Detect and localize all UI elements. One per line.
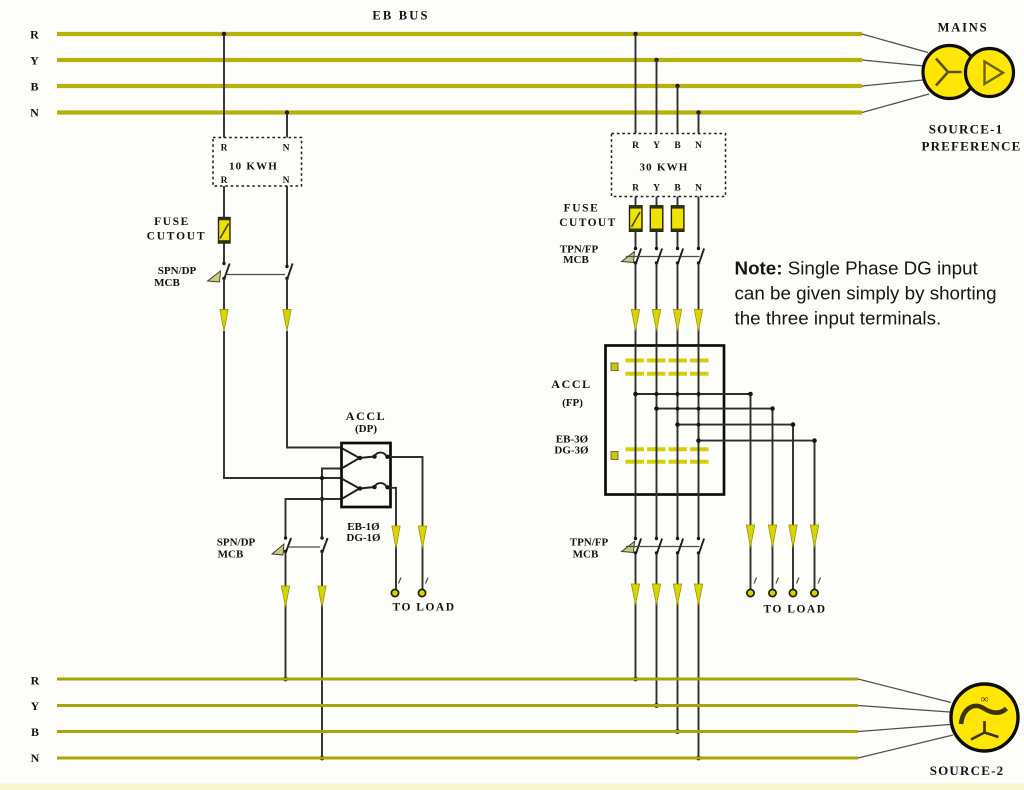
arrow Y input ACCL FP: [652, 310, 660, 332]
svg-text:10 KWH: 10 KWH: [229, 161, 278, 173]
breaker Q2 mechanical link: [288, 546, 321, 548]
indicator square EB: [611, 363, 618, 371]
svg-text:TO LOAD: TO LOAD: [392, 602, 455, 614]
svg-text:R: R: [221, 176, 228, 186]
node junction x322 y499: [320, 497, 324, 501]
breaker Q4 mechanical link: [626, 546, 700, 548]
changeover unit U1 ACCL DP box: [342, 443, 391, 507]
arrow DP load wire left: [392, 526, 400, 549]
source symbol: DG generator SOURCE-2: [951, 684, 1018, 751]
fuse F1 (single phase fuse cutout): [219, 218, 231, 244]
wire fuse F1 to MCB Q1: [223, 243, 225, 264]
arrow N input ACCL FP: [694, 310, 702, 332]
wire MCB Q1 pole R down (EB phase): [223, 279, 225, 311]
node tap R bus x224: [222, 32, 226, 36]
terminal FP load N: [811, 578, 821, 597]
wire DG neutral down to bottom N bus: [321, 552, 323, 759]
node junction DG N bottom bus: [696, 756, 701, 761]
wire R bus top: [57, 32, 862, 36]
svg-text:N: N: [695, 184, 702, 194]
svg-text:FUSE: FUSE: [564, 203, 600, 215]
node tap N bus x287: [285, 110, 289, 114]
wire MCB Q3 N down to ACCL FP: [698, 263, 700, 346]
svg-text:Note: Single Phase DG input: Note: Single Phase DG input: [735, 258, 979, 279]
node tap Y bus x656.5: [654, 58, 658, 62]
breaker Q1 SPN/DP MCB pole N: [285, 264, 292, 281]
source symbol: mains wye circle: [923, 46, 976, 99]
wire drop from R bus to 10KWH meter: [223, 34, 225, 138]
wire EB neutral down and right to ACCL DP input 1: [287, 331, 342, 448]
svg-text:N: N: [695, 141, 702, 151]
node junction DG Y bottom bus: [654, 703, 659, 708]
arrow EB phase wire: [220, 310, 228, 332]
wire fan from N bus to mains: [862, 94, 929, 113]
breaker Q3 TPN/FP MCB pole Y: [655, 247, 662, 265]
svg-text:B: B: [674, 141, 681, 151]
contact bar row 3 (DG side): [626, 447, 710, 451]
wire fuse F4 to MCB Q3: [677, 231, 679, 248]
svg-text:N: N: [283, 144, 290, 154]
wire fan from R bus to mains: [862, 34, 928, 53]
svg-text:B: B: [31, 725, 39, 739]
wire B bus bottom: [57, 730, 858, 733]
kWh meter M2 30 KWH (dashed box): [612, 134, 726, 197]
wire Y bus bottom: [57, 704, 858, 707]
arrow FP load Y: [768, 525, 776, 548]
indicator square DG: [611, 452, 618, 460]
wire fan from R bottom bus to source-2: [858, 679, 951, 703]
svg-text:ACCL: ACCL: [551, 377, 591, 391]
fuse F4 (B phase): [671, 206, 684, 232]
svg-text:TO LOAD: TO LOAD: [763, 604, 826, 616]
svg-text:SPN/DP: SPN/DP: [158, 265, 197, 277]
svg-text:SOURCE-1: SOURCE-1: [929, 122, 1004, 137]
wire DG B down to bottom bus: [677, 553, 679, 732]
breaker Q1 SPN/DP MCB pole R: [208, 262, 230, 282]
breaker Q3 mechanical link: [626, 256, 700, 258]
arrow R input ACCL FP: [631, 310, 639, 332]
arrow FP load N: [810, 525, 818, 548]
svg-text:TPN/FP: TPN/FP: [570, 537, 609, 549]
arrow DG neutral bottom: [318, 586, 326, 607]
node junction DG B bottom bus: [675, 729, 680, 734]
wire B through ACCL FP down to MCB Q4: [677, 346, 679, 539]
svg-text:∞: ∞: [981, 694, 989, 706]
terminal FP load Y: [769, 578, 779, 597]
svg-text:(DP): (DP): [355, 423, 377, 435]
arrow DG Y: [652, 584, 660, 605]
wire MCB Q3 B down to ACCL FP: [677, 263, 679, 346]
node tap R bus x635.5: [633, 32, 637, 36]
svg-text:R: R: [221, 144, 228, 154]
arrow B input ACCL FP: [673, 310, 681, 332]
svg-text:DG-3Ø: DG-3Ø: [554, 445, 589, 457]
terminal DP load 2: [418, 578, 428, 597]
svg-text:30 KWH: 30 KWH: [639, 162, 688, 174]
wire fan from B bus to mains: [862, 80, 923, 86]
wire DG R down to bottom bus: [635, 553, 637, 679]
svg-text:MCB: MCB: [218, 549, 244, 561]
wire MCB Q3 R down to ACCL FP: [635, 263, 637, 346]
switch S2 bottom changeover (phase): [342, 479, 391, 500]
wire N bus top: [57, 110, 862, 114]
svg-text:N: N: [30, 106, 39, 120]
wire B bus top: [57, 84, 862, 88]
svg-text:SOURCE-2: SOURCE-2: [930, 763, 1005, 778]
svg-text:CUTOUT: CUTOUT: [147, 231, 207, 243]
breaker Q3 TPN/FP MCB pole B: [676, 247, 683, 265]
wire N bus bottom: [57, 756, 858, 759]
breaker Q2 SPN/DP MCB pole DG neutral: [320, 536, 327, 553]
breaker Q4 TPN/FP MCB pole N: [697, 537, 704, 555]
wire meter M2 Y to fuse F3: [656, 197, 658, 207]
wire Y through ACCL FP down to MCB Q4: [656, 346, 658, 539]
breaker Q4 TPN/FP MCB pole R: [622, 537, 642, 555]
svg-text:B: B: [30, 80, 38, 94]
svg-text:MCB: MCB: [573, 549, 599, 561]
svg-text:R: R: [632, 184, 639, 194]
svg-text:R: R: [30, 28, 39, 42]
terminal DP load 1: [391, 578, 401, 597]
wire R through ACCL FP down to MCB Q4: [635, 346, 637, 539]
svg-text:R: R: [632, 141, 639, 151]
wire meter M2 N down (no fuse): [698, 197, 700, 249]
note text: [735, 258, 997, 329]
wire drop B to 30KWH meter: [677, 86, 679, 134]
arrow DG phase bottom: [281, 586, 289, 607]
svg-text:CUTOUT: CUTOUT: [559, 217, 616, 229]
wire R bus bottom: [57, 677, 858, 680]
arrow FP load R: [746, 525, 754, 548]
fuse F3 (Y phase): [650, 206, 663, 232]
node tap B bus x677.5: [675, 84, 679, 88]
breaker Q1 mechanical link: [226, 274, 285, 276]
svg-text:R: R: [31, 674, 40, 688]
wire fuse F2 to MCB Q3: [635, 231, 637, 248]
contact bar row 4 (DG side): [626, 460, 710, 464]
svg-text:can be given simply by shortin: can be given simply by shorting: [735, 283, 997, 304]
wire drop R to 30KWH meter: [635, 34, 637, 134]
wire meter M1 N output down to MCB Q1: [286, 186, 288, 267]
contact bar row 2 (EB side): [626, 372, 710, 376]
node junction x322 y478: [320, 476, 324, 480]
svg-text:Y: Y: [31, 699, 40, 713]
svg-text:SPN/DP: SPN/DP: [217, 537, 256, 549]
node junction DG neutral on bottom N bus: [320, 756, 325, 761]
arrow DG N: [694, 584, 702, 605]
wire drop N to 30KWH meter: [698, 113, 700, 134]
wire fan from N bottom bus to source-2: [858, 735, 953, 758]
wire meter M1 R output down to fuse F1: [223, 186, 225, 218]
node tap N bus x698.5: [696, 110, 700, 114]
wire meter M2 R to fuse F2: [635, 197, 637, 207]
wire DG neutral riser x322 to ACCL DP input 2: [322, 469, 342, 539]
arrow DG B: [673, 584, 681, 605]
kWh meter M1 10 KWH (dashed box): [213, 138, 302, 187]
wire drop from N bus to 10KWH meter: [286, 113, 288, 138]
wire DG phase riser x285.5 to ACCL DP input 4: [286, 499, 342, 538]
changeover unit U2 ACCL FP box: [606, 346, 725, 495]
wire MCB Q1 pole N down (EB neutral): [286, 279, 288, 311]
svg-text:MCB: MCB: [154, 277, 180, 289]
svg-text:Y: Y: [653, 184, 660, 194]
wire MCB Q3 Y down to ACCL FP: [656, 263, 658, 346]
wire EB phase down and right to ACCL DP input 3: [224, 331, 342, 478]
node junction DG phase on bottom R bus: [283, 677, 288, 682]
svg-text:EB BUS: EB BUS: [372, 9, 429, 23]
wire DG N down to bottom bus: [698, 553, 700, 758]
wire drop Y to 30KWH meter: [656, 60, 658, 134]
wire fan from B bottom bus to source-2: [858, 725, 950, 732]
wire FP output 2 (Y to load): [654, 406, 775, 593]
svg-text:FUSE: FUSE: [154, 216, 190, 228]
arrow FP load B: [789, 525, 797, 548]
wire N through ACCL FP down to MCB Q4: [698, 346, 700, 539]
breaker Q3 TPN/FP MCB pole R: [622, 247, 642, 265]
contact bar row 1 (EB side): [626, 359, 710, 363]
source symbol: mains delta circle: [966, 49, 1014, 97]
wire meter M2 B to fuse F4: [677, 197, 679, 207]
svg-text:Y: Y: [653, 141, 660, 151]
node junction DG R bottom bus: [633, 677, 638, 682]
terminal FP load R: [747, 578, 757, 597]
wire DG phase down to bottom R bus: [285, 552, 287, 680]
svg-text:N: N: [283, 176, 290, 186]
wire FP output 1 (R to load): [633, 392, 753, 593]
svg-text:PREFERENCE: PREFERENCE: [921, 139, 1021, 154]
wire fan from Y bottom bus to source-2: [858, 706, 950, 713]
svg-text:DG-1Ø: DG-1Ø: [346, 532, 381, 544]
arrow EB neutral wire: [283, 310, 291, 332]
svg-text:MCB: MCB: [563, 254, 589, 266]
bottom highlight strip: [0, 784, 1024, 790]
wire FP output 3 (B to load): [675, 422, 795, 593]
wire fuse F3 to MCB Q3: [656, 231, 658, 248]
wire fan from Y bus to mains: [862, 60, 924, 66]
breaker Q4 TPN/FP MCB pole B: [676, 537, 683, 555]
svg-text:ACCL: ACCL: [346, 409, 386, 423]
arrow DP load wire right: [418, 526, 426, 549]
svg-text:MAINS: MAINS: [938, 21, 989, 35]
wire ACCL DP bottom output to load: [391, 488, 397, 593]
wire FP output 4 (N to load): [696, 438, 817, 593]
svg-text:(FP): (FP): [562, 397, 583, 409]
breaker Q2 SPN/DP MCB pole DG phase: [272, 536, 291, 555]
terminal FP load B: [789, 578, 799, 597]
svg-text:the three input terminals.: the three input terminals.: [735, 308, 942, 329]
fuse F2 (R phase): [630, 206, 643, 232]
breaker Q4 TPN/FP MCB pole Y: [655, 537, 662, 555]
wire ACCL DP top output to load: [391, 457, 423, 593]
breaker Q3 TPN/FP MCB pole N: [697, 247, 704, 265]
svg-text:B: B: [674, 184, 681, 194]
svg-text:Y: Y: [30, 54, 39, 68]
wire Y bus top: [57, 58, 862, 62]
switch S1 top changeover (neutral): [342, 448, 391, 469]
wire DG Y down to bottom bus: [656, 553, 658, 706]
arrow DG R: [631, 584, 639, 605]
svg-text:N: N: [31, 751, 40, 765]
